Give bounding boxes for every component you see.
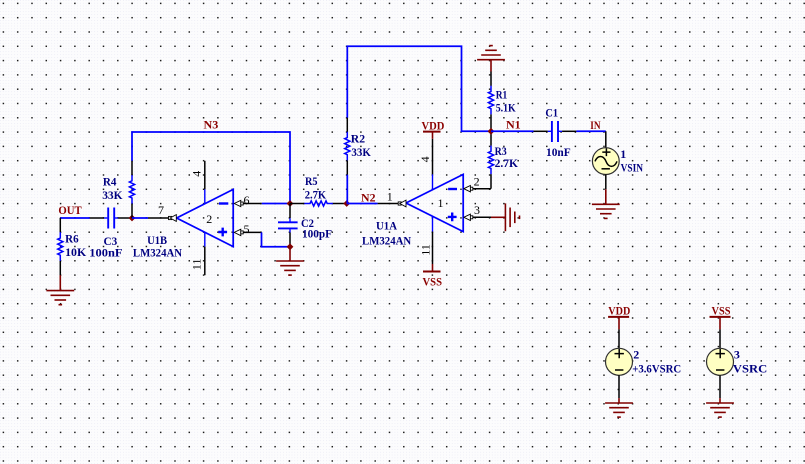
wire pin5 to ground node xyxy=(262,232,291,246)
resistor R6 xyxy=(58,218,63,275)
op-amp U1B xyxy=(132,161,262,275)
svg-text:VSIN: VSIN xyxy=(621,160,644,174)
resistor R3 xyxy=(488,131,493,188)
svg-text:11: 11 xyxy=(418,244,432,256)
ground above R1 (inverted) xyxy=(490,60,492,72)
svg-text:R5: R5 xyxy=(305,174,318,188)
VSIN bottom lead xyxy=(605,175,607,190)
U1B pin 4 power xyxy=(204,161,206,190)
svg-text:N2: N2 xyxy=(361,190,376,204)
VDD src plus mark xyxy=(615,349,624,358)
VSS src power bar xyxy=(710,316,731,318)
VDD src minus mark xyxy=(615,369,623,371)
svg-text:11: 11 xyxy=(190,259,204,271)
VDD src bottom lead xyxy=(618,375,620,398)
ground below VSS src xyxy=(719,398,721,403)
power port VSS of U1A xyxy=(423,271,441,273)
junction node OUT/C3/R4/pin7 xyxy=(129,215,136,222)
wire net N3 xyxy=(132,132,290,204)
capacitor C2 xyxy=(278,204,298,247)
svg-text:10nF: 10nF xyxy=(546,145,571,159)
svg-text:10K: 10K xyxy=(65,245,87,259)
svg-text:VSS: VSS xyxy=(423,274,443,288)
svg-text:U1A: U1A xyxy=(376,218,397,232)
svg-text:100pF: 100pF xyxy=(302,227,332,241)
VSS src body circle xyxy=(707,348,734,375)
U1A triangle body xyxy=(406,174,463,231)
VDD src body circle xyxy=(606,348,633,375)
ground below R6 xyxy=(59,275,61,290)
U1B pin 7 output xyxy=(148,217,169,219)
resistor R4 xyxy=(129,161,134,218)
svg-text:100nF: 100nF xyxy=(89,245,122,259)
wire C1 to IN corner xyxy=(576,130,605,132)
ground below VDD src xyxy=(618,398,620,403)
junction node C2/pin5/ground xyxy=(287,243,294,250)
wire pin6 to junction xyxy=(262,203,290,205)
VSIN body circle xyxy=(592,148,619,175)
capacitor C1 xyxy=(534,121,577,142)
svg-text:OUT: OUT xyxy=(58,203,81,217)
VSIN minus mark xyxy=(602,168,610,170)
svg-text:LM324AN: LM324AN xyxy=(362,233,411,247)
junction node N2 xyxy=(343,200,350,207)
svg-text:1: 1 xyxy=(620,147,626,161)
VSS src bottom lead xyxy=(719,375,721,398)
svg-text:R4: R4 xyxy=(103,175,117,189)
U1A minus sign xyxy=(448,188,457,190)
resistor R1 xyxy=(488,72,493,132)
svg-text:IN: IN xyxy=(590,118,601,132)
resistor R2 xyxy=(345,118,350,175)
U1A pin 3 xyxy=(473,216,491,218)
svg-text:R6: R6 xyxy=(65,232,79,246)
svg-text:N3: N3 xyxy=(204,117,219,131)
junction node N1 xyxy=(488,128,495,135)
U1A pin 4 power xyxy=(432,139,434,175)
U1B minus sign xyxy=(219,202,228,204)
svg-text:VDD: VDD xyxy=(422,118,445,132)
U1B triangle body xyxy=(177,189,234,246)
capacitor C3 xyxy=(90,208,132,229)
svg-text:5: 5 xyxy=(244,222,250,236)
U1B pin 6 xyxy=(244,203,262,205)
ground below C2 xyxy=(289,247,291,261)
op-amp U1A xyxy=(378,139,491,264)
svg-text:C1: C1 xyxy=(545,105,558,119)
wire R2 bottom to N2 xyxy=(346,175,348,204)
U1A pin 2 xyxy=(473,188,491,190)
svg-text:N1: N1 xyxy=(506,117,521,131)
svg-text:3: 3 xyxy=(734,347,740,361)
source VSRC 3 (VSS supply) xyxy=(706,303,767,417)
ground at U1A pin3 (rotated) xyxy=(491,216,505,218)
VSIN pin 1 lead xyxy=(605,131,607,147)
svg-text:LM324AN: LM324AN xyxy=(133,245,182,259)
wire feedback R2 top to N1 xyxy=(347,46,491,131)
svg-text:VSS: VSS xyxy=(712,303,731,317)
svg-text:VSRC: VSRC xyxy=(733,361,767,375)
resistor R5 xyxy=(290,201,347,206)
VSS src top lead xyxy=(719,329,721,348)
U1A plus sign xyxy=(448,213,457,222)
svg-text:5.1K: 5.1K xyxy=(496,100,517,114)
svg-text:2: 2 xyxy=(474,175,480,189)
svg-text:7: 7 xyxy=(158,203,164,217)
svg-text:3: 3 xyxy=(474,203,480,217)
U1A pin 1 output xyxy=(378,203,399,205)
wire OUT horizontal xyxy=(60,217,90,219)
svg-text:R1: R1 xyxy=(496,88,508,102)
U1B pin 5 xyxy=(244,231,262,233)
wire N1 to C1 xyxy=(491,130,534,132)
junction node N3/pin6/R5/C2 xyxy=(287,200,294,207)
svg-text:2.7K: 2.7K xyxy=(305,188,327,202)
svg-text:2: 2 xyxy=(206,212,212,226)
source VSIN xyxy=(592,131,626,189)
svg-text:4: 4 xyxy=(418,156,432,162)
svg-text:6: 6 xyxy=(244,193,250,207)
source VSRC 2 (VDD supply) xyxy=(605,303,681,417)
U1B plus sign xyxy=(218,228,227,237)
ground below VSIN xyxy=(605,189,607,204)
VDD src power bar xyxy=(608,316,629,318)
svg-text:VDD: VDD xyxy=(608,303,630,317)
wire N2 to pin1 xyxy=(347,203,378,205)
VSS src plus mark xyxy=(716,349,725,358)
svg-text:+3.6VSRC: +3.6VSRC xyxy=(632,361,681,375)
VDD src top lead xyxy=(618,329,620,348)
svg-text:1: 1 xyxy=(438,196,444,210)
svg-text:2.7K: 2.7K xyxy=(495,156,519,170)
svg-text:R2: R2 xyxy=(351,132,365,146)
svg-text:4: 4 xyxy=(189,171,203,177)
svg-text:33K: 33K xyxy=(102,188,123,202)
U1B pin 11 power xyxy=(204,232,206,246)
VSS src minus mark xyxy=(716,369,724,371)
VSIN plus mark xyxy=(602,148,610,156)
VSIN sine wave xyxy=(595,156,617,166)
power port VDD of U1A xyxy=(423,131,441,133)
svg-text:33K: 33K xyxy=(351,145,371,159)
svg-text:2: 2 xyxy=(633,347,639,361)
svg-text:1: 1 xyxy=(387,190,393,204)
U1A pin 11 power xyxy=(432,216,434,231)
